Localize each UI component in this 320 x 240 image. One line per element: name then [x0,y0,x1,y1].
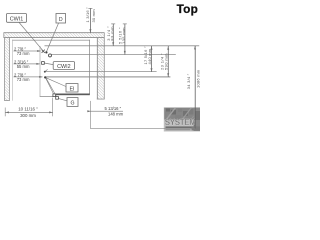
dimension pair 1 left [14,46,30,56]
svg-text:590 mm: 590 mm [164,53,169,70]
svg-text:1086 mm: 1086 mm [195,69,200,88]
equipment outline top edge [12,39,90,42]
svg-text:D: D [59,17,63,23]
symbol drain circle [49,54,52,57]
extension line right edge down [89,101,92,129]
dimension V4 line [167,46,170,77]
dimension pair 2 left [14,59,30,69]
dimension bottom left 300mm line [5,111,53,114]
label box CWI1 [7,14,27,23]
svg-text:CWI1: CWI1 [10,17,23,23]
leader CWI2 [44,63,53,65]
dimension V5 line [194,46,197,128]
svg-text:SYSTEM: SYSTEM [165,118,196,127]
dimension wall top D line [89,8,92,32]
dimension V2 line [124,24,127,55]
svg-text:34 3/4 ″: 34 3/4 ″ [186,73,191,89]
equipment front edge thick [53,94,90,96]
svg-text:10 11/16 ″: 10 11/16 ″ [18,107,38,112]
svg-text:73 mm: 73 mm [17,51,30,56]
symbol gas square 2 [56,97,59,100]
svg-text:Top: Top [177,2,198,16]
leader fan to EI [46,78,66,87]
svg-text:55 mm: 55 mm [17,64,30,69]
svg-text:300 mm: 300 mm [20,113,36,118]
svg-text:5 13/16 ″: 5 13/16 ″ [105,106,122,111]
leader G [58,98,67,100]
dimension bottom left 300mm extension left [4,108,7,117]
symbol square CWI2 [42,62,45,65]
svg-text:148 mm: 148 mm [108,111,124,116]
dimension V3 line [150,46,153,72]
dimension 148mm line [88,110,123,113]
right wall [97,38,105,99]
svg-text:1 3/16 ″: 1 3/16 ″ [85,7,90,23]
symbol C blob [44,71,46,73]
dimension V1 line [112,24,115,46]
watermark logo background [164,107,200,131]
dimension bottom left 300mm extension right [51,98,54,117]
label box CWI2 [53,62,74,70]
symbol gas square 1 [53,94,56,97]
left wall [4,38,9,101]
svg-text:G: G [70,101,74,107]
connection row line A [45,44,200,47]
top wall [4,32,105,38]
label box D [56,14,66,24]
svg-text:440 mm: 440 mm [147,48,152,64]
svg-text:30 mm: 30 mm [91,9,96,23]
svg-text:73 mm: 73 mm [17,77,30,82]
connection row line C [45,70,156,73]
equipment front step horizontal [40,95,54,98]
connection row line D [46,76,170,77]
equipment outline right edge [88,40,91,95]
extension line bottom [90,127,195,130]
svg-text:EI: EI [69,86,74,92]
symbol dot row D [44,76,46,78]
vertical extension line at symbols [39,46,42,79]
svg-text:83 mm: 83 mm [110,26,115,41]
equipment front step up [52,94,55,97]
leader D [47,23,59,51]
label box G [67,98,78,107]
symbol X water inlet 1 [42,50,45,53]
leader fan to gas square 2 [46,78,57,97]
equipment outline left edge [11,40,14,101]
leader fan to gas square 1 [46,78,54,94]
symbol dot row A [45,51,47,53]
leader CWI1 [19,22,43,50]
leader symbol C [45,69,47,71]
dimension pair 3 left [14,72,30,82]
svg-text:CWI2: CWI2 [57,64,70,70]
svg-text:135 mm: 135 mm [121,27,126,44]
connection row line B [51,53,176,56]
label box EI [66,84,78,93]
equipment front step vertical [39,79,42,97]
